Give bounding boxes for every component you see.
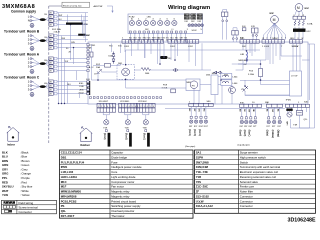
svg-text:LED: LED: [147, 16, 152, 18]
ferrite core Z8C: [78, 34, 86, 36]
svg-text:PCB1,PCB2: PCB1,PCB2: [61, 199, 77, 203]
wire bus from X1M to PCB1: [57, 13, 88, 94]
svg-text:2: 2: [266, 38, 267, 40]
svg-text:2S0: 2S0: [44, 14, 47, 16]
svg-text:FU4: FU4: [242, 26, 245, 28]
svg-text:3: 3: [126, 106, 127, 108]
svg-text:4 1A 2B: 4 1A 2B: [54, 31, 61, 34]
svg-text:-E31: -E31: [79, 89, 84, 91]
node dots: [125, 64, 127, 66]
svg-text:X20 WHT: X20 WHT: [99, 101, 109, 103]
DIP switches DS1 DS2 DS3: [184, 14, 190, 17]
svg-text:S102: S102: [192, 30, 198, 32]
svg-text:S13~S102: S13~S102: [196, 194, 210, 198]
svg-text:Core: Core: [111, 170, 118, 174]
field wiring symbol: [4, 201, 16, 203]
connector S80 gas pipe thermistors: [189, 103, 213, 106]
riser wire at boundary of PCB1: [83, 13, 86, 42]
svg-text:M1C: M1C: [305, 8, 310, 10]
svg-text:DS2: DS2: [145, 29, 149, 31]
svg-text:YLW: YLW: [2, 193, 8, 197]
svg-text:Light emitting diode: Light emitting diode: [111, 175, 136, 179]
compressor motor M1C: [295, 4, 303, 12]
high pressure switch S1PH: [288, 107, 292, 112]
svg-text:L304: L304: [233, 76, 239, 78]
svg-text:4: 4: [147, 106, 148, 108]
screw terminal symbol: [3, 206, 15, 209]
svg-text:Switch: Switch: [240, 160, 249, 164]
svg-text:Fan motor: Fan motor: [111, 185, 124, 189]
svg-text:Solenoid valve: Solenoid valve: [240, 180, 259, 184]
svg-text:M: M: [273, 18, 276, 22]
resistor row (crankcase): [294, 20, 304, 26]
svg-text:3: 3: [270, 38, 271, 40]
svg-text:6: 6: [135, 106, 136, 108]
svg-text:Connector: Connector: [240, 204, 253, 208]
svg-text:M1F: M1F: [270, 13, 275, 15]
power module M61: [211, 75, 218, 95]
wires to PCB2 with labels: [112, 44, 121, 54]
svg-text:5: 5: [110, 106, 111, 108]
svg-text:Printed circuit board: Printed circuit board: [111, 199, 136, 203]
svg-text:Diode bridge: Diode bridge: [111, 155, 127, 159]
svg-text:3.15A: 3.15A: [248, 73, 254, 76]
svg-text:PCB1: PCB1: [90, 45, 96, 47]
LED1-LED7 indicator circles: [129, 20, 134, 25]
vertical wires below top strips: [223, 22, 273, 64]
label: electrical component box: [62, 2, 90, 7]
liquid pipe thermistors: [241, 107, 243, 116]
svg-text:IPM1: IPM1: [286, 99, 292, 101]
fan motor M1F: [271, 16, 279, 24]
svg-text:7: 7: [285, 38, 286, 40]
svg-text:To indoor unit Room A: To indoor unit Room A: [4, 53, 40, 57]
svg-text:MR1: MR1: [187, 82, 192, 84]
svg-text:Y1R: Y1R: [293, 125, 298, 127]
svg-text:2: 2: [123, 106, 124, 108]
svg-text:Intelligent power module: Intelligent power module: [111, 165, 142, 169]
svg-text:U V W: U V W: [291, 76, 298, 78]
svg-text:Z8C: Z8C: [86, 35, 91, 37]
M1C terminal leads U V W: [295, 11, 303, 15]
svg-text:Z1C~Z9C: Z1C~Z9C: [196, 185, 208, 189]
outdoor unit dashed boundary: [48, 6, 50, 144]
svg-text:A5P/T5R: A5P/T5R: [93, 5, 103, 8]
svg-text:S103: S103: [264, 46, 270, 48]
svg-text:Overload protector: Overload protector: [111, 209, 134, 213]
svg-text:MRM10,MRM20: MRM10,MRM20: [61, 190, 82, 194]
svg-text:(Room B): (Room B): [124, 133, 126, 140]
svg-text:DS2: DS2: [191, 21, 195, 23]
svg-text:E3C: E3C: [307, 31, 312, 33]
svg-text:Common supply: Common supply: [11, 10, 36, 14]
wire colour legend: [2, 150, 33, 197]
svg-text:M1F: M1F: [61, 185, 67, 189]
svg-text:To indoor unit Room C: To indoor unit Room C: [4, 76, 40, 80]
svg-text:X102: X102: [79, 93, 85, 95]
svg-text:4M: 4M: [244, 64, 247, 66]
gas pipe thermistors R4T R5T R6T: [190, 107, 192, 117]
svg-text:21: 21: [161, 40, 163, 42]
svg-text:(Room B): (Room B): [193, 129, 195, 136]
svg-text:SA1: SA1: [196, 151, 202, 155]
inductors L304 L404: [221, 74, 232, 80]
svg-text:L404: L404: [233, 83, 239, 85]
svg-text:Indoor: Indoor: [7, 144, 15, 147]
svg-text:E30-: E30-: [79, 83, 84, 85]
svg-text:N: N: [28, 19, 30, 23]
svg-text:10: 10: [129, 40, 131, 42]
svg-text:X11A,A1,A12: X11A,A1,A12: [196, 204, 214, 208]
svg-text:1: 1: [137, 106, 138, 108]
svg-text:5: 5: [278, 38, 279, 40]
svg-text:E30-: E30-: [240, 38, 245, 40]
svg-text:Y1E: Y1E: [103, 127, 108, 129]
svg-text:5: 5: [132, 106, 133, 108]
svg-text:3: 3: [144, 106, 145, 108]
connector S102 on PCB2: [188, 24, 191, 27]
svg-text:W: W: [302, 15, 304, 17]
PCB1 top edge connectors: [122, 40, 164, 44]
svg-text:Wiring diagram: Wiring diagram: [168, 5, 210, 11]
svg-text:M: M: [297, 6, 300, 10]
connector pair symbol: [173, 69, 178, 72]
svg-text:X22 BLK: X22 BLK: [138, 101, 147, 103]
internal wires PCB1: [92, 43, 303, 95]
svg-text:Magnetic relay: Magnetic relay: [111, 194, 130, 198]
svg-text:19: 19: [157, 40, 159, 42]
svg-text:C111,C112,C114: C111,C112,C114: [61, 151, 82, 155]
wire right edge: [291, 44, 315, 128]
svg-text:YLW: YLW: [65, 61, 69, 63]
svg-text:Electrical comp. box: Electrical comp. box: [63, 4, 83, 7]
svg-text:DM: DM: [242, 46, 246, 48]
svg-text:3B3: 3B3: [290, 38, 293, 40]
svg-text:Y1R: Y1R: [196, 175, 201, 179]
svg-text:4S0: 4S0: [44, 83, 47, 85]
svg-text:U,V,W: U,V,W: [196, 199, 204, 203]
svg-text:M1C: M1C: [61, 180, 67, 184]
svg-text:Compressor motor: Compressor motor: [111, 180, 134, 184]
M1F lead wires: [263, 23, 286, 39]
PCB1 left edge connector squares: [87, 43, 89, 45]
wires down to bottom edge: [194, 85, 232, 104]
svg-text:SW7,SW8: SW7,SW8: [196, 160, 209, 164]
svg-text:Electronic expansion valve coi: Electronic expansion valve coil: [240, 170, 278, 174]
svg-text:26: 26: [175, 40, 177, 42]
svg-text:Switching power supply: Switching power supply: [111, 204, 141, 208]
svg-text:Connector: Connector: [240, 194, 253, 198]
svg-text:R1T~R11T: R1T~R11T: [61, 214, 75, 218]
svg-text:Ferrite core: Ferrite core: [240, 185, 255, 189]
svg-text:MR4,MR308: MR4,MR308: [61, 194, 77, 198]
indoor unit icon: [7, 128, 20, 134]
connector pin wires into board: [125, 43, 280, 70]
svg-text:1: 1: [98, 106, 99, 108]
connector S90 liquid pipe thermistors: [240, 104, 262, 107]
svg-text:Connector: Connector: [19, 210, 32, 214]
component legend table (right): [195, 150, 316, 213]
connector X3M with loop: [222, 12, 228, 17]
svg-text:X17A: X17A: [307, 23, 313, 26]
svg-text:E30-: E30-: [240, 102, 245, 104]
svg-text:IPM1: IPM1: [61, 165, 68, 169]
svg-text:Field wiring: Field wiring: [19, 201, 34, 205]
connector symbol: [5, 210, 9, 213]
svg-text:DS1: DS1: [185, 21, 189, 23]
diode bridge DB1: [117, 65, 134, 80]
svg-text:4: 4: [107, 106, 108, 108]
connector S40: [286, 104, 310, 107]
svg-text:Surge arrester: Surge arrester: [240, 151, 258, 155]
svg-text:31: 31: [138, 40, 140, 42]
svg-text:X21 RED: X21 RED: [120, 101, 130, 103]
svg-text:34: 34: [166, 40, 168, 42]
svg-text:3: 3: [104, 106, 105, 108]
svg-text:FU1,FU2,FU3,FU4: FU1,FU2,FU3,FU4: [61, 160, 85, 164]
svg-text:MR30B: MR30B: [239, 60, 247, 62]
svg-text:L4R: L4R: [240, 54, 244, 56]
connector X2M with wire loop: [232, 31, 238, 36]
PCB1 main board outline: [88, 42, 308, 104]
IPM1 module: [290, 71, 302, 96]
svg-text:1: 1: [119, 106, 120, 108]
svg-text:PS: PS: [61, 204, 65, 208]
svg-text:High pressure switch: High pressure switch: [240, 155, 266, 159]
junction dots left: [58, 103, 59, 104]
svg-text:2: 2: [141, 106, 142, 108]
svg-text:3S0: 3S0: [44, 60, 47, 62]
svg-text:Thermistor: Thermistor: [111, 214, 124, 218]
svg-text:Terminal strip with earth term: Terminal strip with earth terminal: [240, 165, 281, 169]
svg-text:(Room C): (Room C): [142, 133, 144, 140]
svg-text:2-B32e: 2-B32e: [272, 38, 278, 40]
svg-text:Connector: Connector: [240, 199, 253, 203]
svg-text:1S0: 1S0: [44, 37, 47, 39]
svg-text:WHT: WHT: [59, 15, 63, 17]
svg-text:FU1 30A: FU1 30A: [52, 28, 61, 31]
svg-text:: Yellow: : Yellow: [20, 193, 30, 197]
svg-text:(Liquid pipe): (Liquid pipe): [238, 145, 250, 147]
svg-text:Capacitor: Capacitor: [111, 151, 123, 155]
fuse FU4: [242, 28, 246, 31]
svg-text:5: 5: [150, 106, 151, 108]
transistor Q1: [229, 87, 236, 94]
svg-text:2: 2: [101, 106, 102, 108]
PCB2 display board: [128, 14, 203, 34]
PCB1 inner bottom connector row: [90, 97, 92, 99]
ferrite core Z7C: [66, 23, 83, 25]
svg-text:Reversing solenoid valve coil: Reversing solenoid valve coil: [240, 175, 276, 179]
component legend table (middle): [60, 150, 194, 218]
svg-text:Y2E: Y2E: [125, 127, 130, 129]
svg-text:Noise filter: Noise filter: [240, 190, 253, 194]
outdoor &amp; discharge thermistors R1T R2T R3T: [267, 104, 283, 107]
horizontal bus wire: [165, 107, 285, 109]
connector S70: [252, 28, 259, 33]
svg-text:Magnetic relay: Magnetic relay: [111, 190, 130, 194]
svg-text:ZF: ZF: [196, 190, 200, 194]
overload protector Q1L: [298, 107, 302, 110]
svg-text:To indoor unit Room B: To indoor unit Room B: [4, 30, 40, 34]
svg-text:6: 6: [153, 106, 154, 108]
svg-text:Q1L: Q1L: [61, 209, 67, 213]
svg-text:(Room C): (Room C): [198, 129, 200, 136]
svg-text:S0: S0: [66, 48, 68, 50]
ferrite core Z9C (black bar): [293, 29, 306, 32]
connector S20 (black bar): [87, 81, 91, 95]
vertical riser wires left area: [59, 13, 89, 104]
svg-text:6: 6: [113, 106, 114, 108]
svg-text:(Gas pipe): (Gas pipe): [185, 146, 195, 148]
svg-text:4: 4: [129, 106, 130, 108]
svg-text:6: 6: [281, 38, 282, 40]
svg-text:DB1: DB1: [61, 155, 67, 159]
svg-text:3D106248E: 3D106248E: [288, 217, 316, 223]
svg-text:(Room C): (Room C): [248, 130, 250, 137]
wire bus y80.5 right: [240, 80, 290, 82]
ferrite tag Z10C: [160, 56, 168, 59]
svg-text:Y2S: Y2S: [196, 180, 201, 184]
svg-text:X1M,X4M: X1M,X4M: [196, 165, 209, 169]
resistor R1: [141, 68, 151, 71]
svg-text:Screw terminal: Screw terminal: [19, 205, 38, 209]
svg-text:Y3E: Y3E: [143, 127, 148, 129]
PCB2 inner bottom connector row: [129, 31, 131, 33]
svg-text:Outdoor: Outdoor: [80, 144, 90, 147]
svg-text:LED1~LEDA: LED1~LEDA: [61, 175, 77, 179]
svg-text:20A: 20A: [96, 66, 100, 69]
M1C connector row: [293, 16, 306, 19]
svg-text:32: 32: [152, 40, 154, 42]
svg-text:(Room B): (Room B): [243, 130, 245, 137]
PCB2 bottom pin wires: [129, 34, 187, 43]
svg-text:Fuse: Fuse: [111, 160, 118, 164]
svg-text:DS3: DS3: [198, 21, 202, 23]
switching power supply PS: [186, 79, 200, 91]
svg-text:S1PH: S1PH: [196, 155, 203, 159]
svg-text:Y1E~Y3E: Y1E~Y3E: [196, 170, 208, 174]
svg-text:L1: L1: [172, 29, 174, 31]
outdoor unit icon: [80, 128, 93, 134]
svg-text:L1R,L102: L1R,L102: [61, 170, 74, 174]
solenoid Y1R wire loop: [300, 107, 310, 128]
symbol legend table: [2, 200, 57, 214]
